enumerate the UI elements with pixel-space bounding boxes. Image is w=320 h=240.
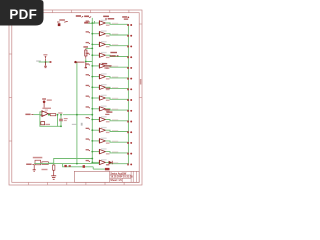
wire: short vertical from CLK label (89, 21, 95, 23)
title block row3 cell divider (121, 178, 123, 182)
frame ticks top (52, 10, 54, 13)
pad P2 on bottom net (83, 165, 85, 168)
wire: cap branch down (60, 115, 62, 119)
title block outline (74, 171, 139, 182)
wire: gate output (49, 114, 51, 116)
value text near junction (58, 112, 62, 113)
wire: tied input legs (40, 111, 42, 113)
oscillator gate IC5 (40, 108, 51, 117)
resistor R2 (series) (50, 114, 56, 116)
capacitor C1 (59, 118, 67, 121)
junction at gate output (48, 114, 50, 116)
component below jumper net (44, 62, 47, 68)
crystal Q1 on loop bottom-left (41, 122, 50, 126)
wire: R3 to bus (63, 114, 93, 116)
frame ticks right + section letter (139, 23, 142, 25)
net label cluster between rows 4 and 5 (110, 52, 119, 57)
title block row line 1 (110, 174, 132, 176)
junction feedback/output (57, 114, 59, 116)
junction where osc joins bus (91, 114, 93, 116)
PDF badge (0, 0, 60, 40)
buffer row 12 (IC3D) (86, 138, 133, 144)
ground symbol GND2 (bottom-left) (33, 165, 36, 171)
main clock bus (vertical net) (91, 18, 93, 163)
buffer row 9 (IC3A) (86, 106, 133, 112)
diode D2 below junction (85, 62, 87, 68)
buffer row 2 (IC1B) (86, 30, 133, 36)
buffer row 1 (IC1A) (86, 20, 133, 26)
buffer row 10 (IC3B) (86, 116, 133, 122)
pad P3 at end of wire (93, 167, 109, 170)
frame ticks left (9, 53, 12, 55)
buffer row 4 (IC1D) (86, 52, 133, 58)
net label cluster between rows 9 and 10 (105, 109, 113, 115)
junction on bus at y158.5 (91, 158, 93, 160)
buffer row 3 (IC1C) (86, 41, 133, 47)
title block text-box edge (130, 171, 132, 182)
feedback loop wires (left/bottom/right) (40, 112, 58, 127)
small mark near row 7 (106, 88, 110, 89)
wire: bottom long net (34, 163, 99, 165)
regulator input label + pin (26, 164, 34, 166)
junction cap/loop bottom (60, 125, 62, 127)
title block divider left (109, 171, 111, 182)
connector column vertical net (127, 24, 129, 164)
pad P1 on bottom net (64, 165, 70, 167)
svg-text:PDF: PDF (9, 7, 37, 22)
diode D3 (33, 157, 43, 165)
power net label GND (top) (84, 16, 91, 18)
junction on jumper net (45, 61, 47, 63)
power net label VCC (top) (76, 15, 83, 17)
LED D3a on rail top (74, 61, 84, 63)
buffer row 11 (IC3C) (86, 127, 133, 133)
buffer row 14 (IC4B) (86, 159, 133, 165)
input net label + pin (25, 114, 33, 116)
junction R1 top on bus (91, 48, 93, 50)
title block divider right 2 (135, 171, 137, 182)
buffer row 6 (IC2B) (86, 73, 133, 79)
title block divider right 1 (132, 171, 134, 182)
regulator IC6 (42, 162, 48, 165)
connector top pad cluster (122, 16, 129, 20)
buffer row 8 (IC2D) (86, 95, 133, 101)
buffer row 13 (IC4A) (86, 148, 133, 154)
buffer row 7 (IC2C) (86, 84, 133, 90)
net label cluster below row 5 (102, 63, 112, 69)
ground symbol GND1 (regulator) (42, 163, 57, 179)
pin at right end of jumper net (50, 61, 52, 63)
title block row line 2 (110, 177, 132, 179)
diode D1 on output of row 14 (109, 161, 113, 164)
net label above R1 (83, 46, 88, 48)
wire: jumper net (39, 61, 51, 63)
gray net label on rail (72, 124, 76, 125)
junction at R1 foot (85, 61, 87, 63)
wire: cap to loop bottom (60, 121, 62, 126)
svg-text:Sheet: 1/1: Sheet: 1/1 (110, 179, 122, 182)
frame ticks bottom (28, 182, 30, 185)
schematic frame outer border (9, 10, 142, 185)
standalone jumper JP1 (left middle) (36, 54, 47, 62)
oscillator power flag (42, 98, 52, 107)
junction at cap branch (60, 114, 62, 116)
wire: regulator output up and right (48, 159, 92, 164)
net label CLK (row1 feed) (84, 22, 88, 24)
resistor R4 above GND1 (53, 165, 55, 170)
junction rail/bottom (76, 163, 78, 165)
schematic frame inner border (12, 13, 139, 183)
annotation cluster top-left (57, 19, 68, 26)
wire: label to gate (33, 114, 41, 116)
wire: R1 top to bus (86, 47, 93, 49)
net label cluster near row 1 gate (103, 16, 114, 20)
resistor R1 (pull-up near bus) (85, 48, 87, 58)
junction at rail crossing (76, 114, 78, 116)
wire: R1 to bus (86, 59, 93, 62)
wire: bottom net continues (63, 164, 94, 167)
buffer row 5 (IC2A) (86, 63, 133, 69)
left power rail (vertical net) (76, 62, 78, 164)
